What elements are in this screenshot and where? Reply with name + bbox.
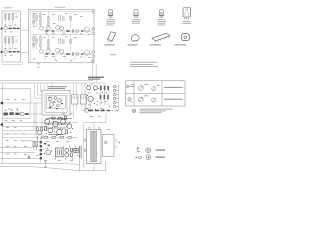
output stage cluster (46, 146, 81, 158)
DIP integrated circuit package (152, 33, 170, 41)
feedback row resistors (89, 110, 110, 112)
connector pin 3 (113, 93, 116, 96)
resistor R11 (13, 51, 16, 53)
wire bottom link (53, 163, 80, 166)
IC inner circuit frame (47, 96, 66, 109)
wire right verticals grid (30, 103, 42, 137)
transistor Q6 (60, 27, 64, 31)
transistor package TO-92 view 2 (134, 9, 138, 15)
transformer winding stack (91, 131, 97, 162)
wire bus h2 (3, 121, 79, 123)
legend table divider horizontal (126, 92, 186, 94)
capacitor C4 (63, 16, 64, 21)
wire input row (3, 102, 42, 104)
capacitor C2 (15, 40, 17, 41)
resistor R24 (66, 53, 69, 55)
power feed arrow (91, 59, 93, 64)
wire bias chain 3 (40, 34, 42, 49)
indicator circle row2 (146, 155, 151, 160)
wire drops to ICs (73, 83, 85, 95)
capacitor C7 (63, 39, 64, 44)
rectifier module mark (105, 142, 107, 144)
bias resistor bank 1 (100, 86, 109, 100)
power package TO-220 leads (185, 17, 189, 20)
legend text top right cell (164, 86, 183, 89)
knob cell 1 text (131, 83, 134, 86)
footnote text lines (140, 108, 173, 111)
resistor R12 (17, 51, 20, 52)
caption above box A (4, 6, 12, 9)
IC circuit transistor c (58, 99, 62, 103)
wire row A ch2 (3, 51, 21, 53)
input terminal ch2 (1, 51, 3, 53)
transistor Q9 (47, 49, 51, 53)
note text block (130, 61, 157, 64)
regulator IC3 (80, 95, 86, 104)
trimmer label top b (157, 84, 160, 87)
regulator IC2 (72, 95, 78, 104)
legend table frame (126, 81, 186, 106)
balance control cluster (36, 127, 42, 140)
transistor package TO-18 view 1 (108, 9, 112, 15)
resistor R9 (12, 38, 14, 44)
resistor R22 (48, 45, 50, 49)
input terminal tape (1, 102, 3, 104)
trimmer pot top row a (138, 86, 143, 91)
legend table divider vertical 1 (133, 81, 135, 106)
label list BD139 group (183, 20, 191, 23)
wire mid bus B (31, 33, 88, 35)
preamp IC module outer box (42, 90, 70, 115)
phase splitter transistor b (93, 86, 97, 90)
wire drops to module (45, 83, 53, 90)
driver stage cluster (44, 116, 72, 135)
label TR row1 (156, 150, 166, 151)
transistor Q7 (84, 27, 89, 32)
label TR row2 (156, 157, 166, 158)
wire bus h1 (3, 117, 31, 119)
volume control cluster (4, 109, 29, 116)
transformer terminal b (84, 149, 86, 151)
connector pin 5 (113, 101, 116, 104)
vertical component stack (40, 139, 42, 163)
fuse stub (118, 142, 120, 144)
transformer terminal a (84, 139, 86, 141)
connector stub wires (116, 87, 118, 107)
arrow mark right (115, 110, 118, 112)
wire supply bus A ch2 (4, 37, 18, 50)
trimmer pot bottom row b (152, 98, 156, 102)
resistor R20 (40, 43, 42, 48)
small parts left of output (33, 141, 47, 167)
wire link ch2 (20, 52, 28, 54)
trimmer pot top row b (152, 87, 156, 91)
wire drops below ICs (73, 104, 85, 118)
wire signal ch2 (43, 53, 92, 55)
capacitor bank marks (44, 143, 50, 146)
resistor R15 (48, 17, 50, 21)
transistor package TO-92 view 3 (159, 9, 163, 15)
connector rail vertical (118, 84, 120, 110)
indicator circle row1 (146, 148, 151, 153)
wire volume row (3, 113, 43, 115)
plus symbol row2 (135, 157, 137, 159)
trimmer T1 (76, 30, 79, 33)
signal row dashes ch1 (46, 30, 84, 31)
wire bottom run 1 (0, 162, 53, 164)
phase splitter transistor c (88, 96, 93, 101)
resistor R21 (48, 40, 50, 44)
caption above IC module (48, 85, 67, 88)
wire row A ch1 (3, 27, 21, 29)
trimmer label bottom a (144, 94, 148, 97)
input terminal phono (1, 123, 3, 125)
resistor R5 (13, 28, 16, 30)
wire nested corners (35, 83, 43, 99)
connector pin 1 (113, 85, 116, 88)
resistor R19 (40, 37, 42, 42)
wire bias chain 4 (47, 34, 49, 49)
resistor R3 (12, 14, 14, 20)
capacitor C1 (15, 17, 17, 18)
wire left edge vertical (2, 83, 4, 163)
bus wire top 2 (0, 82, 106, 84)
output jack ch2b (92, 55, 95, 58)
wire bias chain 1 (40, 11, 42, 26)
resistor R1 (5, 15, 7, 20)
IC circuit wires (48, 96, 64, 108)
label list BC548 group (158, 18, 166, 21)
power package TO-220 (183, 8, 191, 18)
feedback node circle (85, 109, 89, 113)
coupling row under driver (44, 136, 71, 138)
transistor Q2 (4, 50, 7, 53)
connector pin 2 (113, 89, 116, 92)
wire bank extra ch1 (34, 11, 37, 27)
wire bus h4 (3, 136, 45, 138)
output jack ch2 (92, 50, 95, 53)
connector pin 6 (113, 105, 116, 108)
label toroid (175, 44, 187, 45)
legend table divider vertical 2 (161, 81, 163, 106)
label list BC158 group (132, 18, 141, 21)
output jack ch1 (92, 27, 95, 30)
wire power feed down (92, 64, 94, 81)
wire inner rail B (30, 10, 32, 63)
mains transformer outer frame (87, 130, 102, 164)
wire inner top bus B (31, 10, 92, 12)
transistor Q5 (56, 25, 60, 29)
wire supply bus A ch1 (4, 13, 18, 26)
footnote symbol (132, 109, 136, 113)
resistor bank extra ch2 (33, 37, 38, 47)
capacitor C3 (59, 15, 61, 21)
wire splitter drops (86, 90, 91, 111)
label bottom view (128, 44, 138, 45)
wire bus h3b (3, 133, 43, 135)
label flat package (105, 44, 115, 45)
wire bus h5 (20, 140, 34, 142)
bus wire top 1 (0, 80, 93, 82)
note marks below boxes (37, 64, 40, 68)
input terminal ch1 (1, 28, 3, 30)
trimmer pot bottom row a (138, 97, 143, 102)
IC circuit transistor a (48, 97, 52, 101)
IC circuit transistor e (57, 104, 60, 107)
trimmer label top a (144, 83, 148, 86)
wires bias bank (101, 90, 109, 105)
resistor R4 (9, 28, 12, 30)
transistor Q10 (56, 48, 60, 52)
knob symbol cell 1 (127, 85, 130, 88)
wire bus h7 (0, 157, 39, 159)
title smudge power amp (88, 77, 104, 78)
IC circuit resistors (49, 97, 64, 109)
wire bus h3 (3, 129, 37, 131)
capacitor C5 (72, 29, 73, 32)
enclosure box amplifier unit (28, 10, 94, 63)
connector pin 4 (113, 97, 116, 100)
transistor Q1 (4, 27, 7, 30)
label DIP package (150, 44, 162, 45)
package bottom view (131, 35, 139, 42)
transistor Q4 (47, 26, 51, 30)
flat package side view (108, 32, 116, 41)
signal row dashes ch2 (46, 53, 84, 54)
wire feed mid 2 (70, 34, 72, 52)
IC circuit transistor d (50, 103, 54, 107)
rectifier module box (103, 135, 115, 157)
legend text bottom right cell (164, 98, 183, 101)
wire right rail (95, 64, 97, 84)
wire transformer bottom drop (93, 164, 95, 171)
resistor R2 (8, 15, 10, 20)
feedback row wires (82, 109, 113, 111)
wire transformer top feed (93, 123, 95, 130)
resistor R23 (70, 40, 72, 44)
value label group bottom-left (5, 93, 110, 161)
capacitor C8 (72, 52, 73, 55)
resistor R6 (17, 28, 20, 29)
connector top right (92, 11, 95, 14)
clip symbol row1 (137, 147, 140, 152)
preamp IC module inner box (45, 94, 67, 112)
resistor R16 (48, 22, 50, 26)
enclosure box tone-control unit (2, 11, 20, 62)
resistor bank extra ch1 (33, 14, 38, 24)
wire node to lower rail (84, 113, 106, 168)
toroid core (181, 34, 189, 41)
wire bus h6 (0, 146, 34, 148)
wire corner feed (0, 89, 31, 104)
descender ticks below ch1 (47, 33, 76, 37)
transistor Q12 (84, 50, 89, 55)
speckle dots dense cluster (44, 85, 110, 160)
caption mark (110, 53, 116, 56)
wire feed mid (70, 11, 72, 29)
pot wiper circle (4, 113, 7, 116)
wire coupling row (42, 136, 78, 138)
resistor R8 (8, 38, 10, 43)
wire link ch1 (20, 29, 28, 31)
phase splitter transistor a (87, 86, 91, 90)
rectifier terminal marks (116, 139, 117, 149)
resistor R18 (66, 30, 69, 32)
caption above box B (55, 6, 65, 9)
trimmer T2 (76, 53, 79, 56)
wire bus h6b (0, 152, 35, 154)
wire signal ch1 (43, 30, 92, 32)
output jack ch1b (92, 32, 95, 35)
transistor Q11 (60, 50, 64, 54)
wire below box A (2, 62, 23, 64)
resistor R17 (70, 17, 72, 21)
transformer lamination lines (92, 131, 95, 162)
IC circuit transistor b (54, 97, 57, 100)
resistor R10 (9, 51, 12, 53)
resistor R14 (40, 20, 42, 25)
transistor Q8 (40, 49, 44, 53)
resistor R7 (5, 38, 7, 43)
label A node (28, 155, 30, 158)
wire bus h2b (3, 125, 45, 127)
wire bank extra ch2 (34, 34, 37, 50)
capacitor C6 (59, 38, 61, 44)
descender ticks below ch2 (45, 56, 85, 61)
screw symbol cell 2 (128, 98, 131, 101)
label list BC148 group (107, 18, 116, 21)
wire bias chain 2 (47, 11, 49, 26)
value label group top-left (4, 13, 91, 61)
transistor Q3 (40, 26, 44, 30)
wire bottom frame (80, 158, 106, 171)
wire bottom run 2 (0, 166, 80, 170)
resistor R13 (40, 14, 42, 19)
